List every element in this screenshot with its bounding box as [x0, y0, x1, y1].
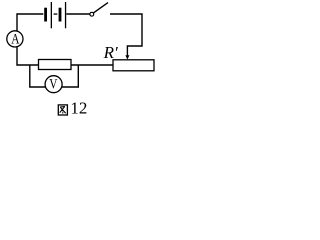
svg-text:12: 12 [70, 99, 87, 118]
svg-text:A: A [11, 32, 20, 48]
svg-text:R′: R′ [103, 43, 118, 62]
svg-text:V: V [49, 77, 58, 93]
